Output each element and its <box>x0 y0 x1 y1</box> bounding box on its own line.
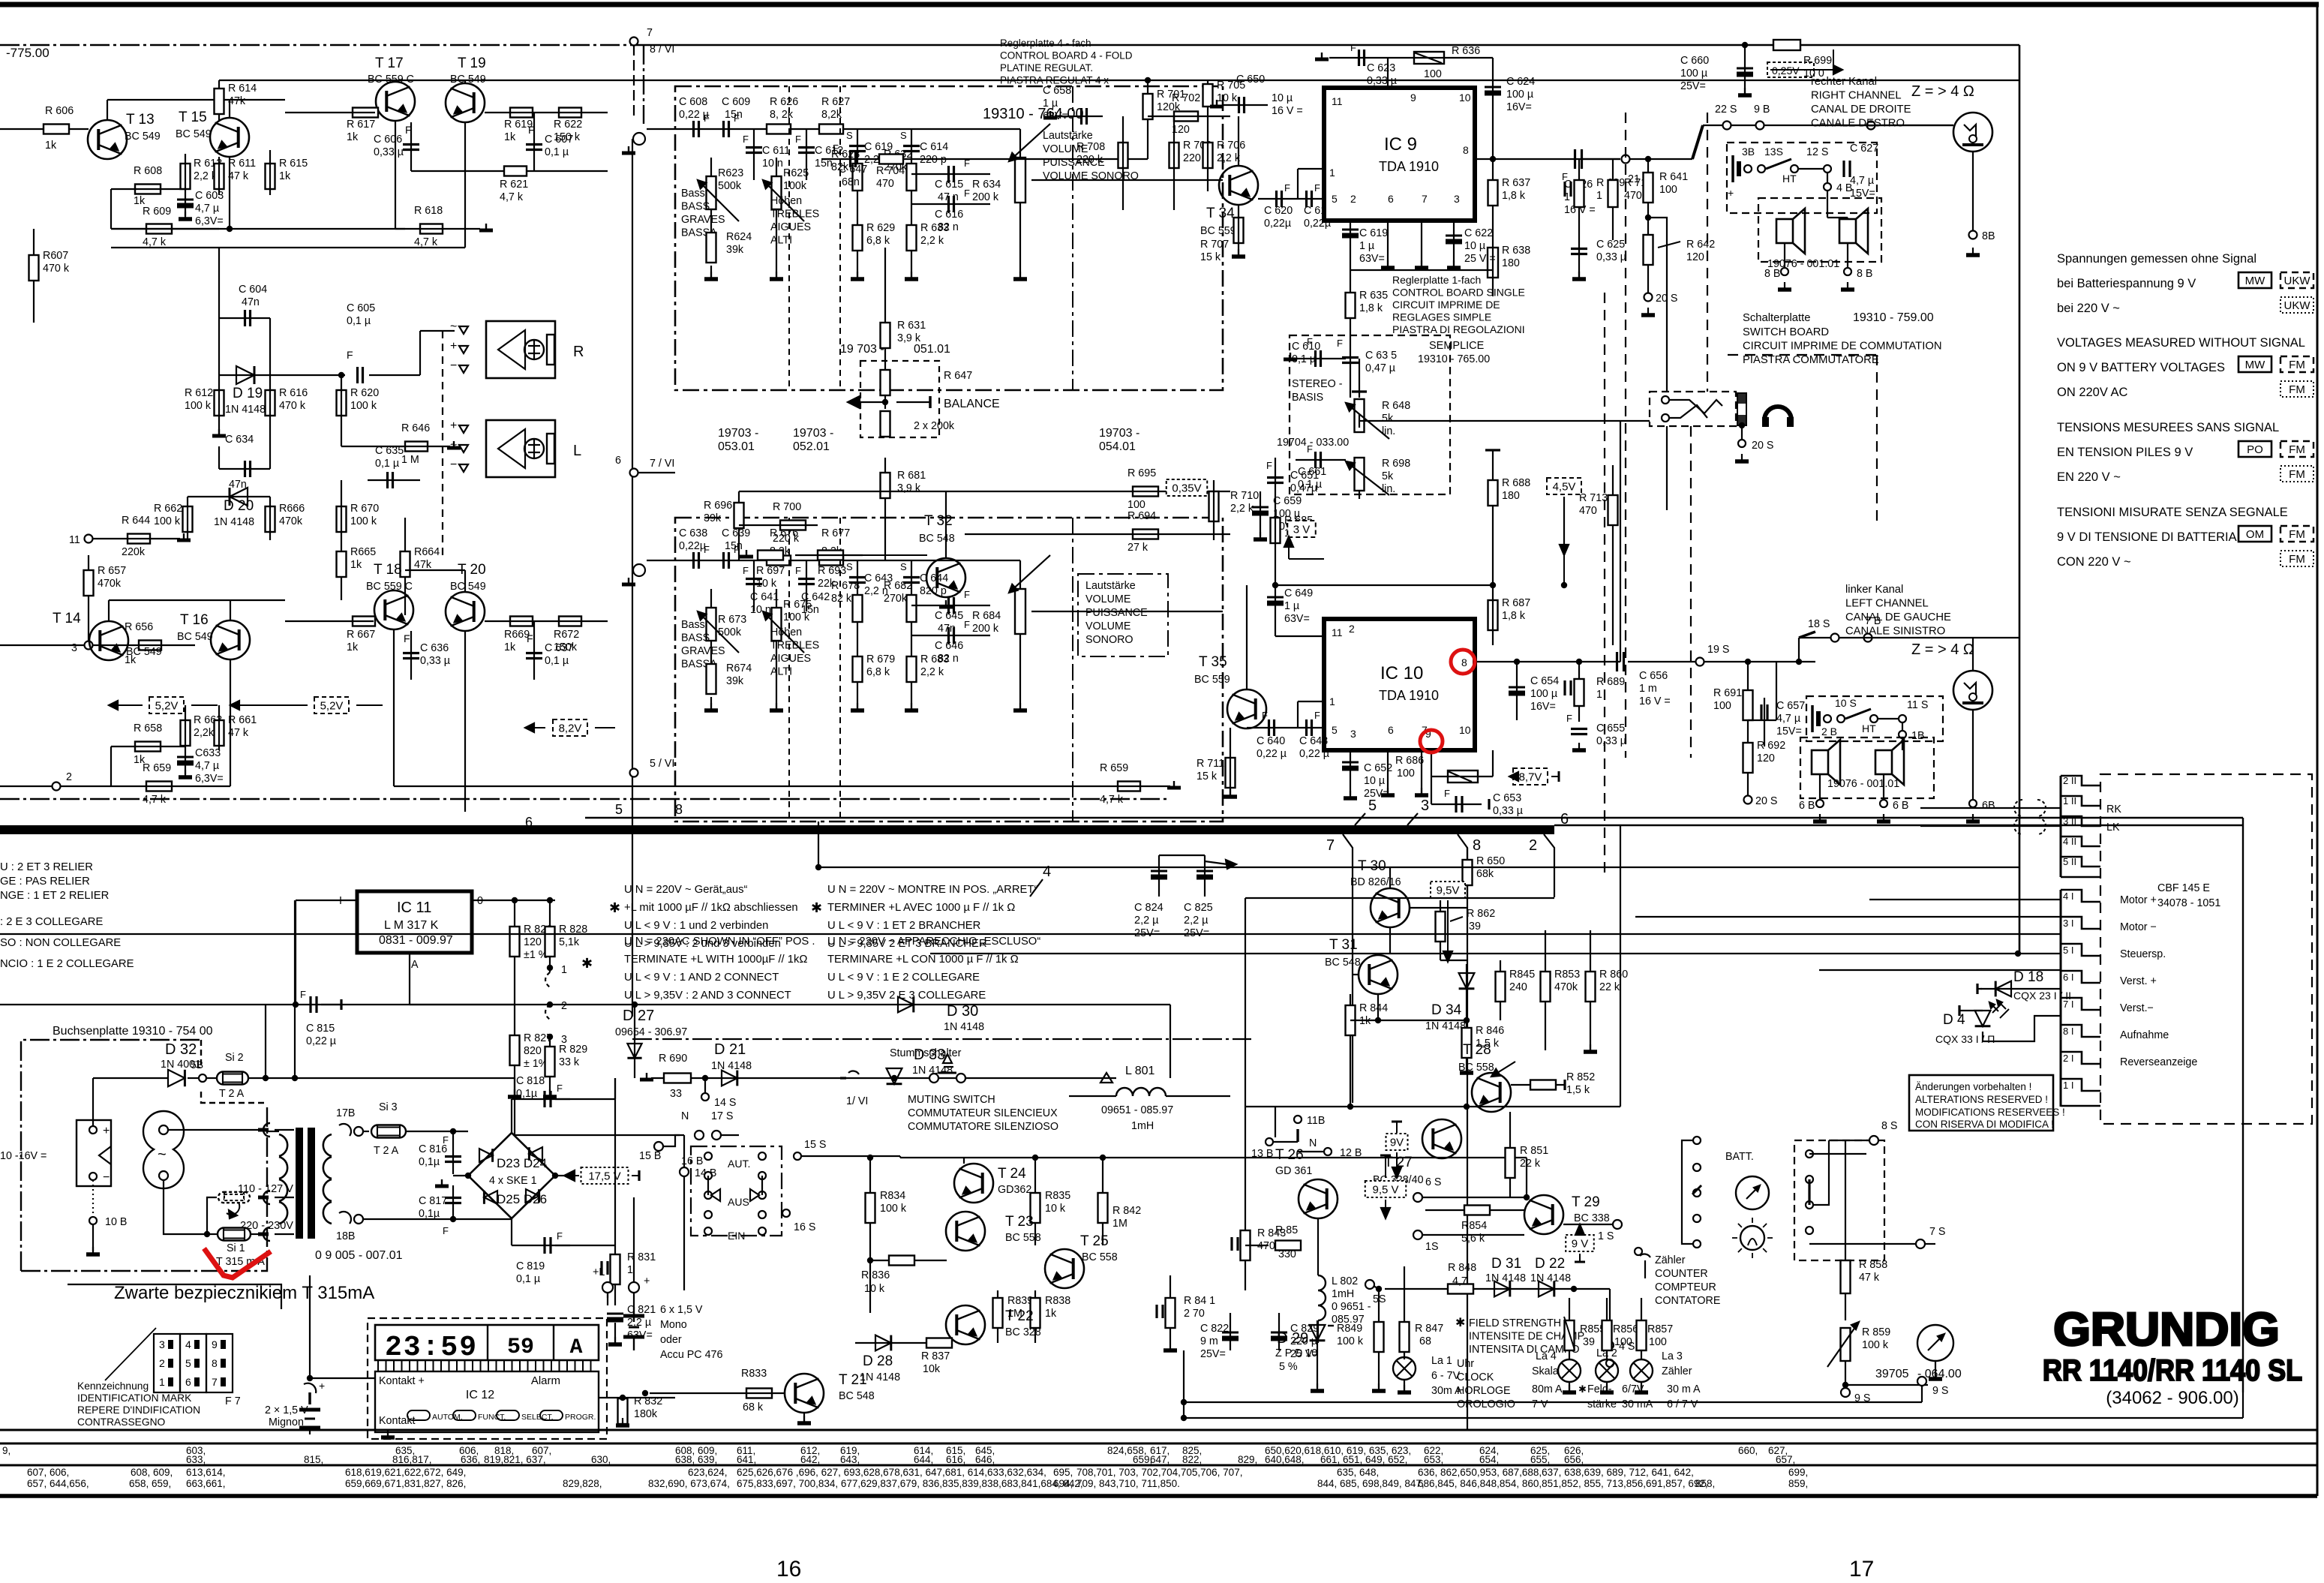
capacitor C623 <box>1358 50 1360 66</box>
svg-text:053.01: 053.01 <box>718 440 755 453</box>
headphone jack dashed box <box>1650 392 1736 426</box>
svg-text:BASS: BASS <box>681 632 710 644</box>
resistor R860 <box>1590 930 1591 1050</box>
svg-text:LK: LK <box>2106 822 2120 834</box>
svg-text:−: − <box>450 359 457 372</box>
wire 15S bus <box>900 1157 1527 1158</box>
svg-text:Uhr: Uhr <box>1457 1358 1474 1370</box>
svg-text:630,: 630, <box>591 1454 611 1465</box>
svg-text:GRAVES: GRAVES <box>681 645 725 657</box>
resistor R837 <box>926 1338 952 1348</box>
svg-text:R: R <box>573 344 584 360</box>
terminal 2 bottom-left <box>53 782 61 791</box>
resistor R853 <box>1545 930 1546 1050</box>
wire C649 junction <box>1275 584 1493 586</box>
svg-text:D 28: D 28 <box>863 1353 893 1369</box>
resistor R833 <box>746 1389 772 1398</box>
C657 cluster <box>1764 698 1765 746</box>
transistor T18 <box>374 590 413 629</box>
svg-text:34078 - 1051: 34078 - 1051 <box>2157 897 2220 909</box>
svg-text:100 k: 100 k <box>1337 1335 1364 1347</box>
svg-text:R 698: R 698 <box>1382 458 1410 470</box>
svg-text:Kontakt +: Kontakt + <box>379 1375 425 1387</box>
svg-text:STEREO -: STEREO - <box>1292 378 1343 390</box>
lamp La3 <box>1630 1359 1653 1382</box>
svg-text:8: 8 <box>212 1357 218 1369</box>
resistor R704 <box>879 155 903 164</box>
svg-text:63V=: 63V= <box>1359 253 1385 265</box>
svg-text:OROLOGIO: OROLOGIO <box>1457 1398 1515 1410</box>
svg-text:15 S: 15 S <box>804 1139 826 1151</box>
svg-text:0,1µ: 0,1µ <box>516 1088 537 1100</box>
resistor R606 <box>44 125 69 134</box>
svg-text:TDA 1910: TDA 1910 <box>1379 159 1439 174</box>
svg-text:11: 11 <box>69 534 80 546</box>
svg-text:C 825: C 825 <box>1184 902 1213 914</box>
1S terminal <box>1413 1230 1422 1239</box>
svg-text:1mH: 1mH <box>1332 1288 1354 1300</box>
svg-text:R 614: R 614 <box>228 83 257 95</box>
svg-text:R 708: R 708 <box>1076 141 1105 153</box>
svg-text:47n: 47n <box>242 296 260 308</box>
svg-text:R 631: R 631 <box>897 320 926 332</box>
IC11 A pin wire <box>409 953 410 1005</box>
svg-text:8 / VI: 8 / VI <box>650 44 674 56</box>
inner top rule <box>644 44 2019 47</box>
transistor T34 <box>1219 166 1258 205</box>
svg-text:R607: R607 <box>43 250 68 262</box>
svg-text:7: 7 <box>212 1376 218 1388</box>
svg-text:T 22: T 22 <box>1005 1308 1034 1324</box>
svg-text:F: F <box>734 113 740 124</box>
svg-text:1N 4148: 1N 4148 <box>225 404 266 416</box>
svg-text:100: 100 <box>1397 767 1415 779</box>
IC10 box <box>1324 619 1475 750</box>
svg-text:659,669,671,831,827, 826,: 659,669,671,831,827, 826, <box>345 1478 466 1489</box>
capacitor C624 <box>1485 86 1501 89</box>
transistor T24 <box>954 1164 993 1203</box>
svg-text:F: F <box>347 349 353 361</box>
svg-text:R 837: R 837 <box>921 1350 950 1362</box>
red check mark fuse Si1 <box>204 1248 271 1278</box>
svg-text:500k: 500k <box>718 180 742 192</box>
svg-text:R672: R672 <box>554 629 579 641</box>
capacitor C644 + resistor R682 <box>911 560 912 626</box>
svg-text:NGE : 1 ET 2 RELIER: NGE : 1 ET 2 RELIER <box>0 890 109 902</box>
svg-text:bei Batteriespannung 9 V: bei Batteriespannung 9 V <box>2057 277 2196 290</box>
svg-text:9 B: 9 B <box>1754 104 1770 116</box>
svg-text:240: 240 <box>1509 981 1527 993</box>
svg-text:C 623: C 623 <box>1367 62 1395 74</box>
svg-text:8B: 8B <box>1982 230 1995 242</box>
diode D27 <box>627 1044 641 1058</box>
svg-text:F: F <box>1314 182 1320 194</box>
svg-text:N: N <box>681 1110 689 1122</box>
svg-text:20 S: 20 S <box>1755 795 1777 807</box>
svg-text:C 644: C 644 <box>920 572 948 584</box>
svg-text:S: S <box>846 561 853 572</box>
svg-text:4,7: 4,7 <box>1452 1275 1467 1287</box>
svg-text:5k: 5k <box>1382 470 1394 482</box>
svg-text:R 859: R 859 <box>1862 1326 1890 1338</box>
svg-text:100: 100 <box>1649 1336 1667 1348</box>
svg-text:2,2 µ: 2,2 µ <box>1134 915 1159 927</box>
svg-text:200 k: 200 k <box>972 191 999 203</box>
svg-text:1: 1 <box>1329 695 1335 707</box>
svg-text:100: 100 <box>1713 700 1731 712</box>
resistor R629 <box>857 195 858 278</box>
resistor R646 <box>405 442 428 452</box>
wire volume2 out <box>1031 611 1223 612</box>
svg-text:F: F <box>795 565 801 576</box>
T30 wires <box>1389 867 1391 888</box>
svg-text:BC 549: BC 549 <box>125 131 161 143</box>
svg-text:R 697: R 697 <box>756 565 785 577</box>
capacitor C643 + resistor R678 <box>857 560 858 626</box>
svg-text:R 648: R 648 <box>1382 400 1410 412</box>
resistor R831 <box>614 1245 616 1305</box>
resistor R692 <box>1743 743 1753 773</box>
svg-text:CONTROL BOARD SINGLE: CONTROL BOARD SINGLE <box>1392 287 1525 299</box>
svg-text:La 1: La 1 <box>1431 1355 1452 1367</box>
schematic inner right border <box>2019 45 2021 954</box>
svg-text:661, 651, 649, 652,: 661, 651, 649, 652, <box>1320 1454 1407 1465</box>
svg-text:Reglerplatte 4 - fach: Reglerplatte 4 - fach <box>1000 38 1091 49</box>
resistor R657 <box>88 555 89 645</box>
svg-text:0,22 µ: 0,22 µ <box>1299 748 1329 760</box>
red circle IC10 pin 8 <box>1451 650 1475 674</box>
wire into C647 <box>821 158 1148 160</box>
transistor T23 <box>946 1212 985 1251</box>
svg-text:656,: 656, <box>1564 1454 1584 1465</box>
svg-text:7 V: 7 V <box>1532 1398 1548 1410</box>
svg-text:COMMUTATORE SILENZIOSO: COMMUTATORE SILENZIOSO <box>908 1121 1058 1133</box>
svg-text:C 651: C 651 <box>1290 470 1319 482</box>
svg-text:C 620: C 620 <box>1264 205 1293 217</box>
svg-text:R 657: R 657 <box>98 565 126 577</box>
svg-text:Si 1: Si 1 <box>227 1242 245 1254</box>
svg-text:644,: 644, <box>914 1454 933 1465</box>
wire Si2 down right <box>515 1078 680 1135</box>
svg-text:✱: ✱ <box>811 900 822 915</box>
resistor R848 <box>1448 1284 1473 1294</box>
svg-text:TREBLES: TREBLES <box>770 209 819 221</box>
svg-text:PUISSANCE: PUISSANCE <box>1085 607 1148 619</box>
svg-text:12 B: 12 B <box>1340 1147 1362 1159</box>
resistor R642 <box>1647 218 1649 293</box>
2I wire <box>2010 1042 2061 1044</box>
svg-text:5k: 5k <box>1382 413 1394 425</box>
diode D4 LED <box>1975 1011 1991 1026</box>
svg-text:R 618: R 618 <box>414 205 443 217</box>
svg-text:R857: R857 <box>1647 1323 1673 1335</box>
svg-text:C 611: C 611 <box>762 145 790 157</box>
svg-text:3 I: 3 I <box>2063 918 2073 929</box>
svg-text:F: F <box>404 632 410 644</box>
pot R648 <box>1359 359 1360 398</box>
switch lever to main line <box>1692 125 1703 159</box>
svg-text:19704 - 033.00: 19704 - 033.00 <box>1277 437 1349 449</box>
svg-text:~: ~ <box>158 1146 167 1163</box>
capacitor C607 <box>526 143 542 146</box>
svg-text:U N = 220AC SHOWN IN “OFF”: U N = 220AC SHOWN IN “OFF” POS . <box>624 936 815 948</box>
svg-text:T 2 A: T 2 A <box>219 1088 245 1100</box>
svg-text:C633: C633 <box>195 747 221 759</box>
D4 wire <box>1983 1016 2061 1041</box>
svg-text:F: F <box>964 589 970 600</box>
svg-text:CANAL DE DROITE: CANAL DE DROITE <box>1811 104 1911 116</box>
svg-text:22k: 22k <box>818 578 836 590</box>
DC input plug <box>77 1120 111 1186</box>
svg-text:BC 559: BC 559 <box>1194 674 1230 686</box>
IC9 pins 6,7 grounds <box>1387 221 1389 266</box>
resistor R647 lower half <box>881 411 890 437</box>
svg-text:CONTROL BOARD 4 - FOLD: CONTROL BOARD 4 - FOLD <box>1000 50 1133 62</box>
top-left dash-dot board edge <box>0 44 644 46</box>
svg-text:25V=: 25V= <box>1680 80 1706 92</box>
transistor T19 <box>446 83 485 122</box>
svg-text:Aufnahme: Aufnahme <box>2120 1029 2169 1041</box>
wire y228 <box>411 170 608 172</box>
capacitor C638 <box>692 552 695 569</box>
svg-text:R 650: R 650 <box>1476 855 1505 867</box>
svg-text:19310 - 759.00: 19310 - 759.00 <box>1853 311 1934 324</box>
secondary 17B <box>339 1124 351 1136</box>
muting switch <box>929 1074 938 1083</box>
20S terminal headphone <box>1739 422 1745 428</box>
svg-text:VOLTAGES MEASURED WITHOUT S: VOLTAGES MEASURED WITHOUT SIGNAL <box>2057 336 2305 350</box>
resistor R670 <box>337 506 347 532</box>
svg-text:TDA 1910: TDA 1910 <box>1379 688 1439 703</box>
svg-text:BD 826/16: BD 826/16 <box>1350 876 1401 888</box>
svg-text:19703 -: 19703 - <box>718 427 758 440</box>
svg-text:C 63 5: C 63 5 <box>1365 350 1397 362</box>
svg-text:052.01: 052.01 <box>793 440 830 453</box>
input wire tone board 1 <box>647 128 1020 130</box>
svg-text:9 V: 9 V <box>1572 1238 1589 1251</box>
svg-text:19703 -: 19703 - <box>1099 427 1139 440</box>
resistor R688 <box>1492 450 1494 585</box>
svg-text:13S: 13S <box>1764 146 1783 158</box>
svg-text:R 710: R 710 <box>1230 490 1259 502</box>
resistor R855 <box>1569 1298 1570 1359</box>
svg-text:C 605: C 605 <box>347 302 375 314</box>
svg-text:Mignon: Mignon <box>269 1416 304 1428</box>
svg-text:11: 11 <box>1332 626 1343 638</box>
svg-text:R 860: R 860 <box>1599 969 1628 981</box>
svg-text:R 673: R 673 <box>718 614 746 626</box>
svg-text:F: F <box>1266 460 1272 471</box>
wire 4B to speaker B <box>1827 217 1848 218</box>
svg-text:D 32: D 32 <box>165 1041 197 1058</box>
svg-text:R845: R845 <box>1509 969 1535 981</box>
svg-text:0,33 µ: 0,33 µ <box>1596 735 1626 747</box>
svg-text:6: 6 <box>1388 724 1394 736</box>
svg-text:R 831: R 831 <box>627 1251 656 1263</box>
svg-text:D 18: D 18 <box>2013 969 2043 985</box>
svg-text:Änderungen vorbehalten !: Änderungen vorbehalten ! <box>1915 1081 2031 1092</box>
svg-text:BC 549: BC 549 <box>176 128 212 140</box>
voltage 4,5V box <box>1547 478 1581 494</box>
svg-text:oder: oder <box>660 1334 682 1346</box>
svg-text:1k: 1k <box>347 641 359 653</box>
svg-text:R 699: R 699 <box>1803 55 1832 67</box>
svg-text:F: F <box>704 544 710 555</box>
svg-text:10: 10 <box>1459 92 1471 104</box>
svg-text:0 9651 -: 0 9651 - <box>1332 1301 1371 1313</box>
svg-text:C 622: C 622 <box>1464 227 1493 239</box>
svg-text:82 k: 82 k <box>831 593 852 605</box>
svg-text:C 646: C 646 <box>935 640 963 652</box>
14B terminal <box>680 1167 689 1176</box>
svg-text:R 690: R 690 <box>659 1053 687 1065</box>
resistor R700 <box>780 521 806 530</box>
svg-text:10 n: 10 n <box>762 158 783 170</box>
svg-text:C 637: C 637 <box>545 642 573 654</box>
resistor R696 <box>738 491 740 560</box>
parts table second rule <box>0 1464 2317 1467</box>
svg-text:R 626: R 626 <box>770 96 798 108</box>
capacitor C656 <box>1616 652 1618 671</box>
fuse spare dashed <box>218 1192 250 1203</box>
svg-text:Verst. +: Verst. + <box>2120 975 2157 987</box>
svg-text:C 815: C 815 <box>306 1023 335 1035</box>
svg-text:1k: 1k <box>347 131 359 143</box>
svg-text:R 662: R 662 <box>154 503 182 515</box>
svg-text:R 852: R 852 <box>1566 1071 1595 1083</box>
resistor R612 <box>215 390 224 416</box>
svg-text:T 29: T 29 <box>1572 1194 1600 1210</box>
svg-text:TENSIONS MESUREES SANS SI: TENSIONS MESUREES SANS SIGNAL <box>2057 421 2279 434</box>
capacitor C653 <box>1431 776 1432 804</box>
svg-text:UKW: UKW <box>2284 275 2311 287</box>
capacitor C611 <box>753 129 755 180</box>
svg-text:La 3: La 3 <box>1662 1350 1683 1362</box>
svg-text:3: 3 <box>159 1338 165 1350</box>
svg-text:832,690, 673,674,: 832,690, 673,674, <box>648 1478 730 1489</box>
svg-text:9,5 V: 9,5 V <box>1372 1184 1398 1197</box>
svg-text:BC 549: BC 549 <box>450 581 486 593</box>
board lower tone outline <box>675 518 1223 822</box>
svg-text:0,47µ: 0,47µ <box>1290 482 1317 494</box>
LED arrows D4 <box>1992 1004 2001 1013</box>
svg-text:15 k: 15 k <box>1197 770 1218 782</box>
svg-text:4,7 k: 4,7 k <box>143 236 167 248</box>
svg-text:8 I: 8 I <box>2063 1026 2073 1037</box>
svg-text:68n: 68n <box>842 176 860 188</box>
svg-text:820: 820 <box>524 1045 542 1057</box>
svg-text:6: 6 <box>615 455 621 467</box>
svg-text:1 II: 1 II <box>2063 795 2076 807</box>
resistor R611 <box>215 164 224 189</box>
svg-text:2,2k: 2,2k <box>194 727 215 739</box>
resistor R681 <box>884 458 886 560</box>
svg-text:CON RISERVA DI MODIFICA !: CON RISERVA DI MODIFICA ! <box>1915 1119 2054 1130</box>
resistor R609 <box>146 224 172 234</box>
svg-text:1 µ: 1 µ <box>1284 600 1299 612</box>
svg-text:R 622: R 622 <box>554 119 582 131</box>
wire T18 emitter long <box>393 629 395 786</box>
svg-text:IC 11: IC 11 <box>397 900 431 916</box>
svg-text:C 604: C 604 <box>239 284 267 296</box>
svg-text:1k: 1k <box>279 170 291 182</box>
svg-text:11: 11 <box>1332 95 1343 107</box>
resistor R841 <box>1170 1275 1171 1343</box>
svg-text:GD362: GD362 <box>998 1184 1031 1196</box>
svg-text:180: 180 <box>1502 490 1520 502</box>
svg-text:2: 2 <box>1529 837 1537 854</box>
svg-text:FIELD STRENGTH: FIELD STRENGTH <box>1469 1317 1561 1329</box>
speaker icon A <box>1776 219 1793 243</box>
lamp La1 <box>1393 1357 1416 1380</box>
diode D34 <box>1459 973 1475 989</box>
svg-text:R 691: R 691 <box>1713 687 1742 699</box>
svg-text:Schalterplatte: Schalterplatte <box>1743 312 1810 324</box>
svg-text:SONORO: SONORO <box>1085 634 1133 646</box>
svg-text:6 I: 6 I <box>2063 972 2073 983</box>
capacitor C819 <box>511 1218 512 1245</box>
svg-text:1M: 1M <box>1112 1218 1127 1230</box>
svg-text:C 824: C 824 <box>1134 902 1164 914</box>
4S terminal <box>1606 1341 1614 1349</box>
transistor T28 <box>1472 1073 1511 1112</box>
svg-text:100 k: 100 k <box>1862 1339 1889 1351</box>
svg-text:2,2 k: 2,2 k <box>1230 503 1254 515</box>
resistor R843 <box>1245 1197 1246 1290</box>
svg-text:COUNTER: COUNTER <box>1655 1268 1708 1280</box>
capacitor C636 <box>403 652 419 654</box>
svg-text:3 II: 3 II <box>2063 816 2076 827</box>
transistor T30 <box>1371 888 1410 927</box>
svg-text:F: F <box>405 124 412 136</box>
svg-text:658, 659,: 658, 659, <box>129 1478 171 1489</box>
svg-text:R 627: R 627 <box>821 96 850 108</box>
capacitor C641 <box>753 560 755 611</box>
svg-text:23:59: 23:59 <box>385 1332 478 1364</box>
resistor R633 <box>911 195 912 278</box>
svg-text:1N 4148: 1N 4148 <box>944 1021 984 1033</box>
svg-text:PIASTRA COMMUTATORE: PIASTRA COMMUTATORE <box>1743 354 1879 366</box>
svg-text:R 702: R 702 <box>1172 92 1200 104</box>
resistor R712 body <box>1612 159 1614 240</box>
resistor R827 <box>514 1005 515 1095</box>
svg-text:BC 338: BC 338 <box>1574 1212 1610 1224</box>
svg-text:R 684: R 684 <box>972 610 1001 622</box>
svg-text:Zähler: Zähler <box>1655 1254 1686 1266</box>
svg-text:4,7 k: 4,7 k <box>414 236 438 248</box>
capacitor C609 <box>722 121 725 137</box>
svg-text:8, 2k: 8, 2k <box>770 109 794 121</box>
svg-text:T 24: T 24 <box>998 1166 1026 1182</box>
T35 <box>1227 689 1266 728</box>
bridge rectifier D23-D26 <box>468 1133 555 1218</box>
capacitor C651 <box>1267 476 1284 479</box>
svg-text:500k: 500k <box>718 626 742 638</box>
svg-text:D25 D26: D25 D26 <box>497 1192 547 1206</box>
voltage 9,5V T26 <box>1365 1181 1407 1197</box>
svg-text:C 818: C 818 <box>516 1075 545 1087</box>
capacitor C635b <box>386 472 389 488</box>
svg-text:18 S: 18 S <box>1808 618 1830 630</box>
svg-text:82 n: 82 n <box>938 221 959 233</box>
svg-text:5: 5 <box>185 1357 191 1369</box>
svg-text:R 637: R 637 <box>1502 177 1530 189</box>
svg-text:U L < 9 V : 1 AND 2 CON: U L < 9 V : 1 AND 2 CONNECT <box>624 972 779 984</box>
battery wire to +L <box>633 1197 635 1283</box>
svg-text:R 695: R 695 <box>1127 467 1156 479</box>
svg-text:4: 4 <box>185 1338 191 1350</box>
svg-text:100: 100 <box>1127 499 1145 511</box>
